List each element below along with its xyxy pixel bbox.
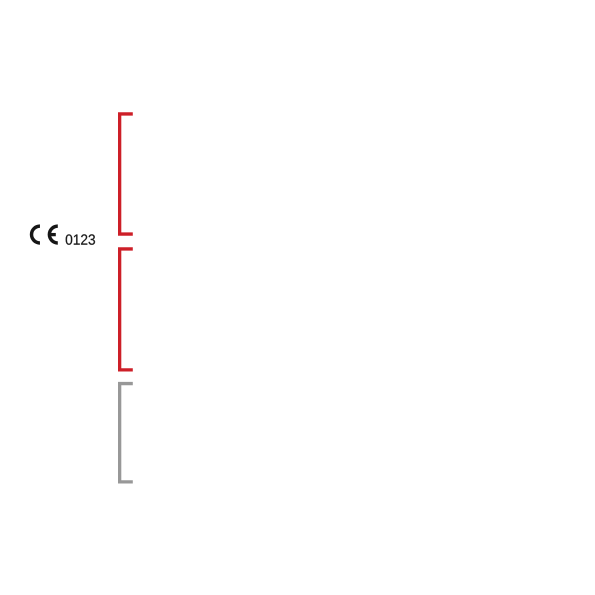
bracket 3 (gray) [118, 382, 133, 484]
notified body number 0123 [66, 234, 95, 244]
CE mark letter E [48, 224, 58, 244]
CE mark letter E middle bar [50, 233, 56, 236]
CE mark letter C [30, 224, 40, 244]
bracket 2 (red) [118, 247, 133, 371]
bracket 1 (red) [118, 112, 133, 236]
